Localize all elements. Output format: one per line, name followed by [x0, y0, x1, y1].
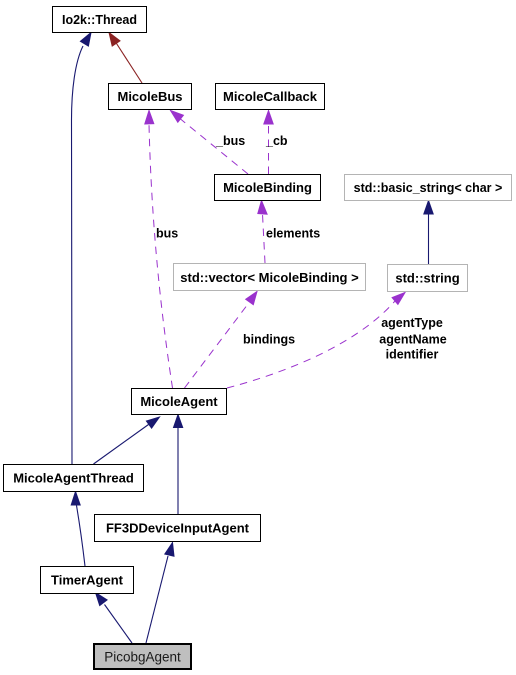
arrowhead into Io2k::Thread (dark red): [109, 33, 120, 47]
svg-text:identifier: identifier: [386, 348, 439, 362]
arrowhead into std::vector bottom (purple, bindings): [246, 292, 257, 305]
wire MicoleBus to Io2k::Thread (solid dark red private inheritance): [117, 44, 143, 84]
node MicoleAgent: [132, 389, 227, 415]
svg-text:MicoleCallback: MicoleCallback: [223, 89, 318, 104]
svg-text:std::basic_string< char >: std::basic_string< char >: [354, 181, 503, 195]
wire PicobgAgent to TimerAgent (solid blue): [105, 605, 133, 644]
node MicoleBinding: [215, 175, 321, 201]
svg-text:elements: elements: [266, 227, 320, 241]
node TimerAgent: [41, 567, 134, 594]
arrowhead into MicoleAgentThread bottom (blue): [71, 492, 80, 506]
wire MicoleAgent to std::vector, dashed purple, label bindings: [185, 302, 250, 388]
arrowhead into MicoleAgent bottom (blue): [174, 415, 183, 428]
svg-text:agentName: agentName: [379, 333, 446, 347]
arrowhead into MicoleBinding bottom (purple, elements): [258, 201, 267, 215]
svg-text:MicoleAgentThread: MicoleAgentThread: [13, 471, 134, 486]
arrowhead into std::string bottom (purple): [392, 293, 405, 305]
svg-text:PicobgAgent: PicobgAgent: [104, 650, 181, 665]
svg-text:MicoleBus: MicoleBus: [117, 89, 182, 104]
svg-text:Io2k::Thread: Io2k::Thread: [62, 13, 137, 27]
node Io2k::Thread: [53, 7, 147, 33]
arrowhead into MicoleBus bottom-right (purple, _bus): [171, 111, 184, 123]
arrowhead into TimerAgent bottom (blue): [96, 593, 108, 606]
wire TimerAgent to MicoleAgentThread (solid blue): [77, 506, 86, 567]
svg-text:FF3DDeviceInputAgent: FF3DDeviceInputAgent: [106, 521, 250, 536]
arrowhead into MicoleBus bottom (purple, bus): [145, 111, 154, 125]
wire std::string to std::basic_string (solid blue): [428, 214, 430, 264]
svg-text:std::string: std::string: [395, 271, 459, 286]
wire FF3DDeviceInputAgent to MicoleAgent (solid blue vertical): [177, 428, 179, 515]
wire std::vector to MicoleBinding, dashed purple, label elements: [263, 214, 266, 263]
svg-text:agentType: agentType: [381, 316, 443, 330]
wire MicoleBinding to MicoleBus, dashed purple, label _bus: [181, 119, 249, 174]
node std::basic_string< char >: [345, 175, 512, 201]
arrowhead into std::basic_string (blue): [424, 201, 433, 215]
svg-text:bus: bus: [156, 227, 178, 241]
node MicoleCallback: [216, 84, 325, 110]
node FF3DDeviceInputAgent: [95, 515, 261, 542]
node std::string: [388, 265, 468, 292]
wire MicoleAgentThread to Io2k::Thread (solid blue inheritance): [72, 46, 84, 464]
svg-text:_cb: _cb: [265, 134, 288, 148]
arrowhead into MicoleAgent bottom-left (blue): [146, 417, 159, 428]
node MicoleBus: [109, 84, 192, 110]
arrowhead into FF3DDeviceInputAgent bottom (blue): [165, 543, 174, 557]
svg-text:MicoleBinding: MicoleBinding: [223, 180, 312, 195]
arrowhead into MicoleCallback bottom (purple, _cb): [264, 111, 273, 125]
svg-text:_bus: _bus: [215, 134, 245, 148]
svg-text:std::vector< MicoleBinding >: std::vector< MicoleBinding >: [180, 270, 359, 285]
arrowhead into Io2k::Thread (blue): [80, 33, 91, 47]
wire MicoleBinding to MicoleCallback, dashed purple, label _cb: [268, 124, 270, 174]
svg-text:MicoleAgent: MicoleAgent: [140, 394, 218, 409]
wire MicoleAgent to std::string, dashed purple, label agentType agentName identifier: [227, 301, 395, 388]
node MicoleAgentThread: [4, 465, 144, 492]
node PicobgAgent (current node, gray): [94, 644, 191, 669]
svg-text:TimerAgent: TimerAgent: [51, 573, 124, 588]
wire MicoleAgent to MicoleBus, dashed purple, label bus: [149, 124, 173, 388]
wire MicoleAgentThread to MicoleAgent (solid blue): [94, 425, 149, 465]
wire PicobgAgent to FF3DDeviceInputAgent (solid blue): [146, 556, 168, 643]
node std::vector< MicoleBinding >: [174, 264, 366, 291]
svg-text:bindings: bindings: [243, 333, 295, 347]
